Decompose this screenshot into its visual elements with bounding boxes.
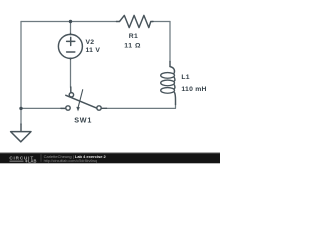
svg-text:L1: L1 [181,74,189,81]
svg-text:110 mH: 110 mH [181,86,206,93]
svg-text:V2: V2 [86,39,95,46]
svg-text:SW1: SW1 [74,116,92,125]
svg-text:R1: R1 [129,33,138,40]
svg-text:11 Ω: 11 Ω [124,43,141,50]
svg-text:11 V: 11 V [86,47,101,54]
svg-text:http://circuitlab.com/c/5dr8kv: http://circuitlab.com/c/5dr8kv6wq [44,159,98,163]
svg-text:✶LAB: ✶LAB [25,159,37,164]
